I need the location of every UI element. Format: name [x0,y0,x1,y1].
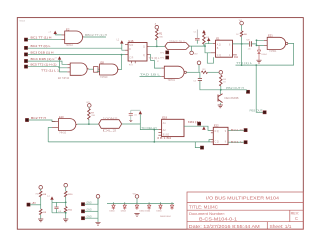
svg-text:C R: C R [129,58,133,60]
svg-text:E10: E10 [59,115,64,119]
svg-text:+5V: +5V [32,202,37,205]
wire E16 Qbar elbow to gate E14 input [150,55,162,69]
wire VCC dot to divider [30,204,41,206]
wire A6 stem [208,41,210,44]
wire E6 output to E8 buffer [89,68,94,70]
wire E1 Q output [233,43,249,45]
one-shot E1 pin stubs left [211,44,216,53]
ground GND4 [63,219,68,222]
svg-text:TAD 1B L: TAD 1B L [140,73,161,77]
NAND gate E14 [164,66,184,78]
test point pad TP4 [200,146,203,149]
svg-text:D664: D664 [145,211,151,213]
wire E14 output net [186,71,200,73]
wire upper rail [52,201,66,203]
E16 bottom pin stubs [132,61,136,63]
wire riser TD to feedback [153,130,155,142]
svg-text:C Q: C Q [217,55,221,57]
svg-text:B-CS-M104-0-1: B-CS-M104-0-1 [199,216,238,221]
wire net BC5 to gate E6 input 2 [28,67,68,68]
svg-text:M104: M104 [20,21,26,23]
resistor R4 [220,75,223,86]
svg-text:TITLE: M104C: TITLE: M104C [189,204,218,209]
svg-text:(+): (+) [47,196,50,198]
svg-text:74H10: 74H10 [59,132,67,135]
junction loop drop [255,64,257,66]
wire DL2 output to E19 [122,124,159,130]
wire loop drop to PB3 [256,65,263,112]
capacitor C5 plates [129,114,133,116]
svg-text:74H10: 74H10 [66,44,74,47]
svg-text:BC2 TT (0) L: BC2 TT (0) L [31,46,52,48]
svg-text:B01 L: B01 L [231,141,244,144]
svg-text:REV:: REV: [291,212,300,216]
wire to PB2 dot [246,90,248,92]
wire E10 output [77,123,99,125]
ground GND2 [256,60,261,63]
wire R11 bottom [65,212,67,219]
svg-text:D Q: D Q [215,131,219,133]
connector pin dot B02 [244,141,247,144]
delay line DL1 [165,43,190,50]
resistor R8 [39,191,42,197]
node BC3 pin dot [24,53,27,56]
resistor R6 [240,31,243,37]
ground GND1 [218,105,223,108]
wire R7 bottom stem [88,119,90,124]
wire gate E8 output riser to BC3 net [119,55,121,70]
wire gate E2 output net [83,36,106,38]
wire GND A [85,198,98,204]
resistor R9 [39,209,42,215]
wire J4 stem [241,25,243,31]
delay line DL2 [99,120,122,129]
junction R4 on Q1 net [220,89,222,91]
svg-text:S D: S D [129,45,133,47]
terminal jack J10 [155,25,159,29]
power +3V arrow A5 [202,30,205,33]
power +3V arrow A1 [54,31,57,34]
svg-text:B01 H: B01 H [231,129,243,132]
wire R4 bottom stem [220,86,222,90]
resistor R5 [203,33,206,44]
svg-text:I/O BUS MULTIPLEXER M104: I/O BUS MULTIPLEXER M104 [206,195,280,200]
svg-text:DL2: DL2 [103,131,119,133]
wire J5 stem [88,107,90,108]
wire DL1 output to E1 inputs [189,44,212,53]
junction lower rail col2 [65,212,67,214]
terminal jack J4 [240,21,244,25]
svg-text:A Q: A Q [217,43,221,46]
wire E19 output to E22 [184,126,211,130]
IC E19 pin stubs left [158,130,161,136]
wire A9 stem to DL2 output [139,114,141,124]
wire arrow A2 stem [121,44,123,49]
resistor R1 pullup [156,29,159,40]
svg-text:D664: D664 [110,211,116,213]
node BC2 pin dot [24,46,27,49]
AND gate E6 [70,63,88,75]
svg-text:C Q: C Q [215,142,219,144]
svg-text:TT3 (1) L: TT3 (1) L [236,62,253,65]
terminal jack J5 [88,104,92,108]
ground GND7 small [129,121,132,122]
flip-flop E22 pin stubs left [211,130,213,142]
diode D5 [135,204,138,210]
power +3V arrow A6 [207,38,210,41]
wire DL2 supply rail [131,109,141,111]
svg-text:PB3 OUT: PB3 OUT [250,110,264,113]
junction TD riser top [153,129,155,131]
wire E16 Q to delay line DL1 [150,45,165,47]
NAND gate E21 pin stubs [264,40,267,45]
wire net BC2 to E16 D [28,48,125,50]
AND gate E6 pin stubs [67,64,70,72]
wire J7 stem [65,187,67,191]
terminal jack J2 [197,61,201,65]
svg-text:3 B 1 B4: 3 B 1 B4 [157,137,172,140]
E1 right lower pin stub [233,54,237,56]
resistor R11 [64,207,67,213]
svg-text:25NS DL1: 25NS DL1 [169,40,186,43]
one-shot E1 [216,40,233,57]
wire R8 bottom [40,197,42,209]
flip-flop E22 [213,127,228,144]
junction DL1 out split [204,45,206,47]
wire buffer to gate E8 inputs [97,69,100,71]
flip-flop E16 pin stubs left [125,44,128,54]
svg-text:74H01: 74H01 [269,50,277,53]
junction upper rail col2 [65,202,67,204]
wire E10 feedback riser [48,127,52,141]
wire C5 stems [130,110,132,120]
svg-text:BC1 TT (1) H: BC1 TT (1) H [31,38,53,40]
buffer box E8A [94,67,99,73]
terminal jack J3 [219,71,223,75]
capacitor C2 plates [198,79,202,81]
wire net BC4 to gate E6 input 1 [28,61,68,64]
wire TP4 stub [195,142,200,148]
svg-text:E6 74H10: E6 74H10 [58,77,70,80]
test point pad TP2 [166,56,169,59]
wire A7 stem [203,125,205,127]
svg-text:E19: E19 [162,116,167,120]
junction E21 input 1 [256,39,258,41]
wire A8 stem to rail [51,200,53,203]
wire lower rail [52,202,66,212]
wire C2 top stem [199,72,201,78]
wire J1 stem [191,46,193,51]
node BC5 pin dot [24,65,27,68]
wire +3V stem to gate E2 input [55,33,61,36]
connector pin dot VCC in [27,203,30,206]
connector pin dot GND A [81,203,84,206]
wire C4 stems [56,202,58,212]
terminal jack J9 [135,195,139,199]
wire A7 drop to loop [241,44,243,65]
wire Q1 emitter stem [219,103,221,105]
wire net BC3 to E16 C [28,54,125,56]
svg-text:BC3 D1B (1) H: BC3 D1B (1) H [31,53,54,55]
E14 output bubble [184,71,186,73]
diode D7 [159,204,162,210]
diode D3 [112,204,115,210]
svg-text:E22: E22 [214,124,219,128]
svg-text:E8: E8 [101,60,105,64]
NAND gate E14 pin stubs [161,68,164,76]
svg-text:D664: D664 [121,211,127,213]
wire feedback up to E22 C [209,140,211,142]
power +3V arrow A7 [202,126,205,129]
junction pullup R6 [241,43,243,45]
junction loop left [241,64,243,66]
wire C1 bottom stem [196,40,198,44]
svg-text:Q: Q [143,55,145,57]
connector pin dot B01 [244,129,247,132]
power +3V arrow A2 [120,40,123,43]
wire R2 to terminal [208,71,219,73]
resistor R10 [64,191,67,197]
wire C3 to E21 split [252,40,265,45]
E1 bottom loop wire [207,53,213,63]
svg-text:BBC2 TT (1) H: BBC2 TT (1) H [85,35,107,37]
gate E10 pin stubs [52,122,58,128]
wire diode bus [107,203,174,205]
NAND gate E21 [267,37,285,49]
junction Q net R1 [156,46,158,48]
wire J2 stem [198,65,200,73]
node BC1 pin dot [24,38,27,41]
diode D6 [147,204,150,210]
capacitor C1 plates [195,38,200,40]
flip-flop E16 [128,43,147,62]
svg-text:PB2 OUT H: PB2 OUT H [226,87,244,90]
terminal jack J8 [96,195,100,199]
connector pin dot PB3 [263,111,266,114]
border frame (decorative) [17,18,303,230]
svg-text:E21: E21 [268,34,273,38]
svg-text:Sheet: 1/1: Sheet: 1/1 [270,224,293,229]
svg-text:D664 D664: D664 D664 [160,216,171,218]
svg-text:D664: D664 [262,54,268,56]
ground GND3 [38,219,43,222]
wire net BC6 to gate E10 [29,120,56,122]
wire J9 stem [136,198,138,203]
terminal jack J7 [64,183,68,187]
svg-text:TD DELAY: TD DELAY [141,127,158,130]
svg-text:R O: R O [129,65,133,67]
wire E22 Qbar out [228,141,244,143]
wire R10 bottom [65,197,67,207]
junction TD riser bottom [153,141,155,143]
svg-text:100NS: 100NS [103,117,119,120]
wire R6 bottom stem [241,37,243,44]
power +3V arrow A8 [50,196,53,199]
diode D8 [170,204,173,210]
wire R1 bottom stem to Q net [156,40,158,46]
wire R5 bottom stem [203,44,205,46]
wire R1 top stem [156,28,158,30]
wire E21 output loop [236,43,294,65]
AND gate E2 [65,31,84,44]
transistor Q1 collector stub [219,90,221,95]
terminal jack J6 [39,186,43,190]
wire net BC1 [28,39,62,41]
wire GND B [85,210,98,212]
svg-text:D664: D664 [157,211,163,213]
C1 body lead [196,30,198,39]
power +3V arrow A9 [139,111,142,114]
E16 right pin stubs [147,46,150,54]
AND gate E10 [58,119,77,131]
node BC4 pin dot [24,59,27,62]
AND gate E8 [100,64,120,75]
wire TAD stub to E14 input 2 [140,75,162,77]
resistor R7 [88,109,91,120]
test point pad TP1 [166,51,169,54]
wire J6 stem [40,189,42,191]
power +3V arrow A3 [58,56,61,59]
wire R9 bottom [40,215,42,219]
svg-text:E1: E1 [216,37,220,41]
ground GND5 [95,222,100,225]
junction R7 pullup [88,123,90,125]
svg-text:TT2 (0) L: TT2 (0) L [149,58,161,60]
test point pad TP3 [198,122,201,125]
IC E19 [162,119,184,136]
connector pin dot GND C [81,217,84,220]
ground GND6 [134,213,139,216]
capacitor C4 plates [54,207,58,209]
connector pin dot GND B [81,210,84,213]
wire GND C [85,198,98,222]
svg-text:74H10: 74H10 [100,76,108,79]
junction E21 input 2 [256,45,258,47]
wire C2 bottom to Q1 base net [200,80,247,89]
svg-text:DEC3639B: DEC3639B [225,98,240,100]
svg-text:E16: E16 [129,39,134,43]
svg-text:74H01: 74H01 [168,79,176,82]
transistor Q1 [218,94,223,103]
diode D4 [123,204,126,210]
AND gate E2 pin stubs [62,35,65,40]
wire feedback net TT4 [48,141,211,143]
svg-text:E2: E2 [66,27,70,31]
node BC6 pin dot [25,118,28,121]
junction gate E8 output riser on BC3 [121,54,123,56]
svg-text:Q: Q [143,47,145,49]
title block [187,192,303,229]
diode D2 [257,45,260,60]
svg-text:C: C [295,216,298,221]
svg-text:TT2 (1) L 1: TT2 (1) L 1 [41,70,60,72]
svg-text:Date: 12/27/2016 8:55:44 AM: Date: 12/27/2016 8:55:44 AM [189,224,261,229]
wire E22 Q out [228,129,244,131]
wire arrow A3 stem to gate E6 input 3 [60,60,68,72]
resistor R2 (horizontal) [201,71,207,74]
junction ticks on diode bus [113,202,172,204]
capacitor C3 series plates [250,41,252,46]
connector pin dot PB2 [246,90,249,93]
E21 output bubble [286,42,288,44]
terminal jack J1 [190,51,194,55]
